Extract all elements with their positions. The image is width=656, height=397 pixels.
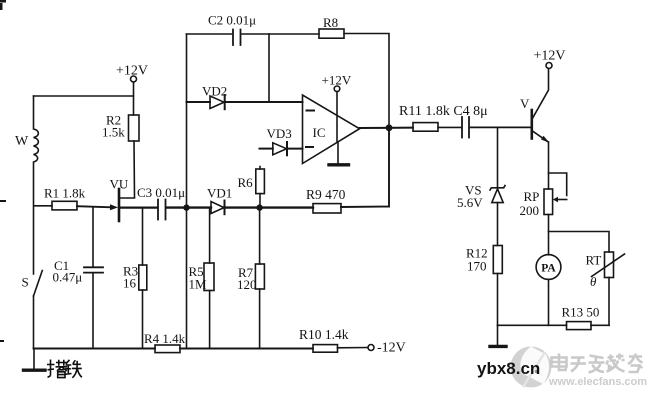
scan noise marks — [0, 0, 6, 342]
wire S lower — [33, 296, 35, 349]
wire bottom rail left — [34, 348, 156, 350]
potentiometer RP body — [544, 189, 553, 215]
wire feedback column vertical — [186, 34, 188, 349]
op-amp IC triangle — [303, 95, 360, 164]
thermistor RT body — [605, 252, 614, 278]
resistor R9 — [313, 204, 341, 213]
svg-text:R10 1.4k: R10 1.4k — [299, 327, 349, 342]
resistor R13 — [567, 322, 592, 330]
svg-text:5.6V: 5.6V — [457, 195, 483, 210]
resistor R12 — [493, 246, 502, 274]
wire R3 bottom — [142, 290, 144, 349]
wire R11 to C4 — [438, 126, 461, 128]
wire C3 to VD1 — [167, 206, 211, 208]
resistor R7 — [255, 264, 264, 289]
ground chassis bar — [24, 369, 46, 372]
wire R2 bottom to VU base2 — [119, 141, 135, 198]
capacitor C4 — [462, 117, 469, 138]
resistor R8 — [319, 29, 344, 38]
op-amp minus lower — [306, 146, 313, 148]
wire R8 right to output column — [344, 34, 389, 129]
potentiometer RP wiper loop — [549, 173, 567, 202]
wire PA bottom — [548, 279, 550, 325]
resistor R11 — [413, 123, 438, 132]
wire C1 bottom — [92, 274, 94, 349]
svg-text:+12V: +12V — [534, 49, 566, 64]
power +12V terminal op-amp — [334, 86, 340, 142]
meter PA circle — [536, 255, 561, 280]
svg-text:1M: 1M — [189, 277, 208, 292]
svg-text:R13 50: R13 50 — [562, 305, 600, 320]
wire R9 right to corner — [341, 128, 389, 207]
thermistor RT diagonal — [592, 254, 625, 277]
zener VS — [490, 186, 505, 203]
ground R12 bar — [490, 345, 506, 348]
wire lower right rail — [498, 324, 567, 326]
svg-text:V: V — [520, 96, 530, 111]
svg-text:RP: RP — [524, 189, 540, 204]
ground chassis text 搭铁 drawn as paths — [47, 360, 82, 378]
svg-text:www.elecfans.com: www.elecfans.com — [548, 376, 647, 388]
resistor R3 — [139, 265, 147, 290]
wire R1 to VU emitter with arrow — [77, 204, 118, 210]
watermark text dianzifashaoyou — [552, 354, 643, 373]
transistor V — [532, 69, 550, 190]
resistor R2 — [129, 115, 140, 141]
svg-text:+12V: +12V — [116, 64, 148, 79]
svg-text:θ: θ — [590, 274, 597, 289]
resistor R4 — [155, 345, 180, 353]
wire C4 to transistor V base — [471, 126, 532, 128]
wire R13 to RT column — [591, 324, 609, 326]
wire C1 branch top — [92, 208, 94, 266]
capacitor C2 — [233, 30, 241, 46]
svg-text:PA: PA — [541, 263, 556, 275]
wire top loop from feedback column to C2 — [187, 33, 232, 35]
wire R5 bottom — [209, 291, 211, 349]
wire RT loop top — [549, 232, 610, 253]
wire VS to R12 — [497, 203, 499, 246]
wire top-left horizontal W to R2 node — [34, 95, 134, 97]
wire R3 branch top — [142, 208, 144, 265]
wire R10 to -12V terminal — [338, 347, 368, 349]
svg-text:VD2: VD2 — [202, 84, 227, 99]
watermark logo circle — [511, 347, 552, 388]
svg-text:ybx8.cn: ybx8.cn — [477, 359, 540, 378]
power +12V terminal right — [546, 63, 552, 69]
svg-text:S: S — [22, 275, 29, 290]
svg-text:C2 0.01μ: C2 0.01μ — [208, 13, 256, 28]
wire R12 bottom — [497, 274, 499, 326]
wire VD1 to R9 — [225, 206, 314, 208]
svg-text:R1 1.8k: R1 1.8k — [44, 186, 86, 201]
wire VU to C3 — [119, 207, 157, 209]
diode VD3 — [260, 142, 303, 155]
ground R12 stub — [497, 325, 499, 345]
svg-text:R8: R8 — [323, 15, 338, 30]
svg-text:IC: IC — [313, 125, 326, 140]
wire C2 to R8 — [242, 33, 319, 35]
wire RP to PA — [548, 215, 550, 255]
power -12V terminal — [368, 345, 374, 351]
op-amp minus upper — [307, 110, 315, 112]
resistor R5 — [204, 263, 214, 291]
wire bottom rail middle — [180, 348, 313, 350]
svg-text:RT: RT — [586, 253, 602, 268]
svg-text:-12V: -12V — [377, 341, 406, 356]
svg-text:R6: R6 — [238, 175, 254, 190]
wire R5 branch top — [209, 208, 211, 263]
diode VD2 — [187, 95, 303, 109]
svg-text:C3 0.01μ: C3 0.01μ — [137, 185, 185, 200]
wire RT bottom — [608, 278, 610, 326]
svg-text:VD3: VD3 — [267, 126, 292, 141]
svg-text:R11 1.8k C4 8μ: R11 1.8k C4 8μ — [399, 104, 488, 119]
svg-text:0.47μ: 0.47μ — [53, 270, 83, 285]
power +12V terminal left — [131, 76, 137, 115]
svg-text:16: 16 — [123, 276, 137, 291]
resistor R1 — [34, 201, 77, 210]
svg-text:VD1: VD1 — [207, 186, 232, 201]
wire op-amp output — [360, 127, 414, 129]
svg-text:120: 120 — [237, 277, 257, 292]
node output junction — [386, 124, 393, 131]
svg-text:R4 1.4k: R4 1.4k — [144, 331, 186, 346]
svg-text:R9 470: R9 470 — [306, 187, 346, 202]
op-amp ground — [329, 142, 349, 165]
wire R7 branch top — [259, 208, 261, 264]
svg-text:200: 200 — [520, 203, 540, 218]
node junction at feedback column — [183, 204, 189, 210]
wire R7 bottom — [259, 289, 261, 349]
capacitor C3 — [158, 200, 166, 220]
ground chassis stub — [33, 349, 35, 370]
switch S — [34, 271, 43, 297]
transistor VU (UJT) bar — [118, 189, 121, 221]
capacitor C1 — [84, 267, 103, 272]
svg-text:170: 170 — [467, 259, 487, 274]
svg-text:W: W — [15, 134, 29, 149]
resistor R10 — [313, 345, 338, 353]
diode VD1 — [211, 201, 225, 215]
node R6 R7 junction — [256, 204, 262, 210]
svg-text:+12V: +12V — [322, 73, 352, 88]
svg-text:VU: VU — [110, 177, 129, 192]
wire C2 lower tap column — [268, 34, 270, 102]
inductor W — [34, 96, 39, 274]
wire VS branch down — [497, 127, 499, 187]
svg-text:1.5k: 1.5k — [102, 125, 125, 140]
resistor R6 — [256, 167, 265, 208]
